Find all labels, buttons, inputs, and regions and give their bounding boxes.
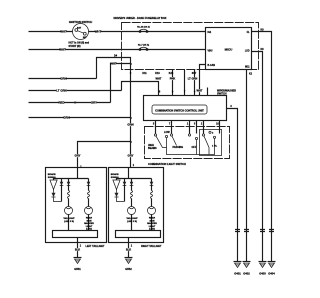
svg-text:G403: G403 bbox=[259, 272, 266, 276]
svg-text:IGNITION SWITCH: IGNITION SWITCH bbox=[69, 20, 92, 24]
svg-text:LOW: LOW bbox=[164, 131, 170, 134]
svg-text:No.23 (10 A): No.23 (10 A) bbox=[137, 26, 150, 29]
svg-text:COMBINATION LIGHT SWITCH: COMBINATION LIGHT SWITCH bbox=[148, 162, 186, 166]
svg-text:G402: G402 bbox=[243, 272, 250, 276]
svg-text:GRN: GRN bbox=[127, 123, 133, 127]
svg-text:PASSING: PASSING bbox=[173, 146, 184, 149]
svg-text:(LED X 5): (LED X 5) bbox=[127, 221, 137, 223]
svg-text:WHT: WHT bbox=[59, 48, 66, 52]
svg-text:MARKER: MARKER bbox=[147, 222, 157, 225]
svg-text:LIGHT: LIGHT bbox=[149, 226, 156, 228]
svg-text:BEAMS: BEAMS bbox=[148, 147, 157, 150]
svg-text:3C7: 3C7 bbox=[192, 72, 197, 75]
svg-text:WHT: WHT bbox=[156, 76, 162, 80]
svg-text:TAILLIGHT: TAILLIGHT bbox=[126, 217, 138, 220]
svg-text:REAR: REAR bbox=[86, 217, 93, 220]
svg-text:TAILLIGHT: TAILLIGHT bbox=[63, 217, 75, 220]
svg-text:K26: K26 bbox=[169, 72, 174, 75]
svg-text:MICU: MICU bbox=[225, 48, 233, 52]
svg-text:WHT: WHT bbox=[197, 88, 203, 92]
svg-text:LT GRN: LT GRN bbox=[56, 89, 67, 93]
svg-text:WHT: WHT bbox=[95, 30, 102, 34]
svg-text:LT GRN: LT GRN bbox=[188, 76, 198, 80]
svg-text:RIGHT TAILLIGHT: RIGHT TAILLIGHT bbox=[141, 245, 162, 248]
svg-text:WHT: WHT bbox=[110, 61, 116, 65]
svg-text:G551: G551 bbox=[74, 267, 81, 271]
svg-text:B-CAN: B-CAN bbox=[208, 64, 216, 67]
svg-text:(LED X 5): (LED X 5) bbox=[64, 221, 74, 223]
svg-text:G401: G401 bbox=[234, 272, 241, 276]
svg-text:No.7 (15 A): No.7 (15 A) bbox=[138, 44, 150, 47]
svg-text:LSD: LSD bbox=[245, 51, 250, 53]
svg-text:BLK: BLK bbox=[75, 247, 80, 251]
svg-text:GRY: GRY bbox=[75, 154, 81, 158]
svg-text:PNK: PNK bbox=[170, 76, 176, 80]
svg-text:GRN: GRN bbox=[63, 116, 69, 120]
svg-text:REAR: REAR bbox=[149, 217, 156, 220]
svg-text:BAT: BAT bbox=[77, 26, 82, 29]
svg-text:SIDE: SIDE bbox=[86, 220, 92, 222]
svg-text:BRAKE: BRAKE bbox=[111, 173, 119, 176]
svg-text:SIDE: SIDE bbox=[149, 220, 155, 222]
svg-text:LIGHT: LIGHT bbox=[86, 226, 93, 228]
svg-text:BRAKE: BRAKE bbox=[48, 173, 56, 176]
svg-text:GRN: GRN bbox=[60, 77, 66, 81]
svg-text:WHT: WHT bbox=[60, 30, 67, 34]
svg-text:LEFT TAILLIGHT: LEFT TAILLIGHT bbox=[86, 245, 105, 248]
svg-text:G404: G404 bbox=[268, 272, 275, 276]
svg-text:COMBINATION SWITCH CONTROL UNI: COMBINATION SWITCH CONTROL UNIT bbox=[155, 108, 204, 112]
svg-text:M11: M11 bbox=[245, 67, 250, 69]
svg-text:RED: RED bbox=[58, 101, 64, 105]
svg-text:DRIVER'S UNDER - DASH FUSE/REL: DRIVER'S UNDER - DASH FUSE/RELAY BOX bbox=[114, 17, 167, 20]
svg-text:D11: D11 bbox=[142, 72, 147, 75]
svg-text:START (III): START (III) bbox=[69, 45, 81, 48]
svg-text:GRY: GRY bbox=[128, 154, 134, 158]
svg-text:VBU: VBU bbox=[208, 51, 213, 53]
svg-text:OFF: OFF bbox=[192, 146, 197, 149]
svg-text:G552: G552 bbox=[125, 267, 132, 271]
svg-text:MARKER: MARKER bbox=[84, 222, 94, 225]
svg-text:GRY: GRY bbox=[91, 101, 97, 105]
svg-text:K16: K16 bbox=[155, 72, 160, 75]
svg-text:1 T/L: 1 T/L bbox=[212, 146, 218, 148]
svg-text:BLK: BLK bbox=[126, 247, 131, 251]
